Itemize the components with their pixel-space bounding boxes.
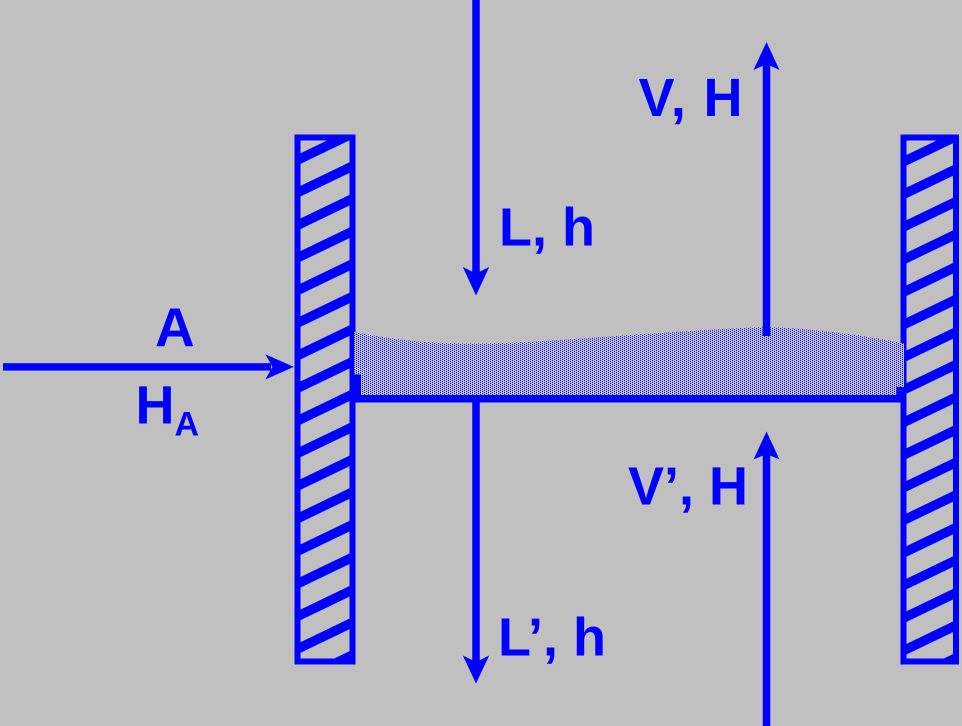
svg-text:L, h: L, h — [499, 198, 595, 258]
tray floor line — [354, 395, 904, 403]
svg-text:V’, H: V’, H — [628, 457, 748, 517]
svg-text:A: A — [155, 296, 195, 358]
arrow V,H outlet (top, upward) — [754, 42, 780, 336]
liquid froth on tray (dotted) — [354, 327, 904, 397]
arrow A feed (left, rightward) — [3, 354, 294, 379]
svg-text:V, H: V, H — [639, 68, 744, 128]
arrow V',H inlet (bottom, upward) — [754, 432, 780, 726]
left weir — [353, 375, 361, 403]
svg-text:L’, h: L’, h — [498, 608, 606, 668]
right wall (hatched column) — [904, 138, 957, 662]
arrow L',h outlet (bottom, downward) — [463, 402, 489, 684]
arrow L,h inlet (top, downward) — [463, 0, 489, 296]
right weir step — [897, 387, 905, 403]
left wall (hatched column) — [298, 138, 353, 662]
